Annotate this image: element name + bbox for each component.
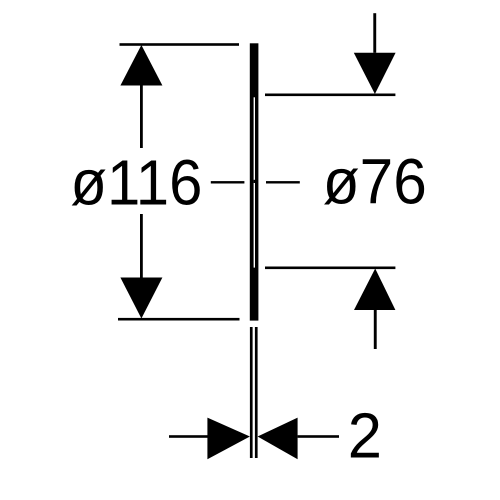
thickness arrow left (points right) xyxy=(207,418,250,460)
svg-text:ø116: ø116 xyxy=(70,147,202,219)
thickness dim line left xyxy=(169,435,209,438)
disc centre tick xyxy=(254,180,255,183)
dim ø76 bottom stem xyxy=(374,310,377,349)
disc bore gap (white centre line) xyxy=(254,97,255,267)
dim ø76 bottom extension line xyxy=(265,267,395,270)
dim ø76 bottom arrow (up) xyxy=(354,269,395,311)
dim ø116 top arrow (up) xyxy=(120,45,162,86)
dim ø76 top stem xyxy=(373,13,376,53)
dim ø76 top extension line xyxy=(265,94,395,97)
dim ø116 upper stem xyxy=(140,86,143,149)
thickness extension line left xyxy=(250,327,253,458)
svg-text:ø76: ø76 xyxy=(323,145,427,217)
dim ø116 bottom arrow (down) xyxy=(120,278,162,319)
dim ø116 lower stem xyxy=(140,214,143,278)
thickness extension line right xyxy=(255,327,258,458)
dim ø76 top arrow (down) xyxy=(354,53,396,94)
dim ø116 top extension line xyxy=(120,43,240,46)
svg-text:2: 2 xyxy=(348,399,382,471)
thickness arrow right (points left) xyxy=(258,418,298,460)
disc body (edge view) xyxy=(250,43,259,320)
dim ø116 bottom extension line xyxy=(118,318,240,321)
thickness dim line right xyxy=(298,435,339,438)
dim ø116 leader dash left xyxy=(211,181,245,183)
dim ø116 leader dash right xyxy=(266,181,300,183)
